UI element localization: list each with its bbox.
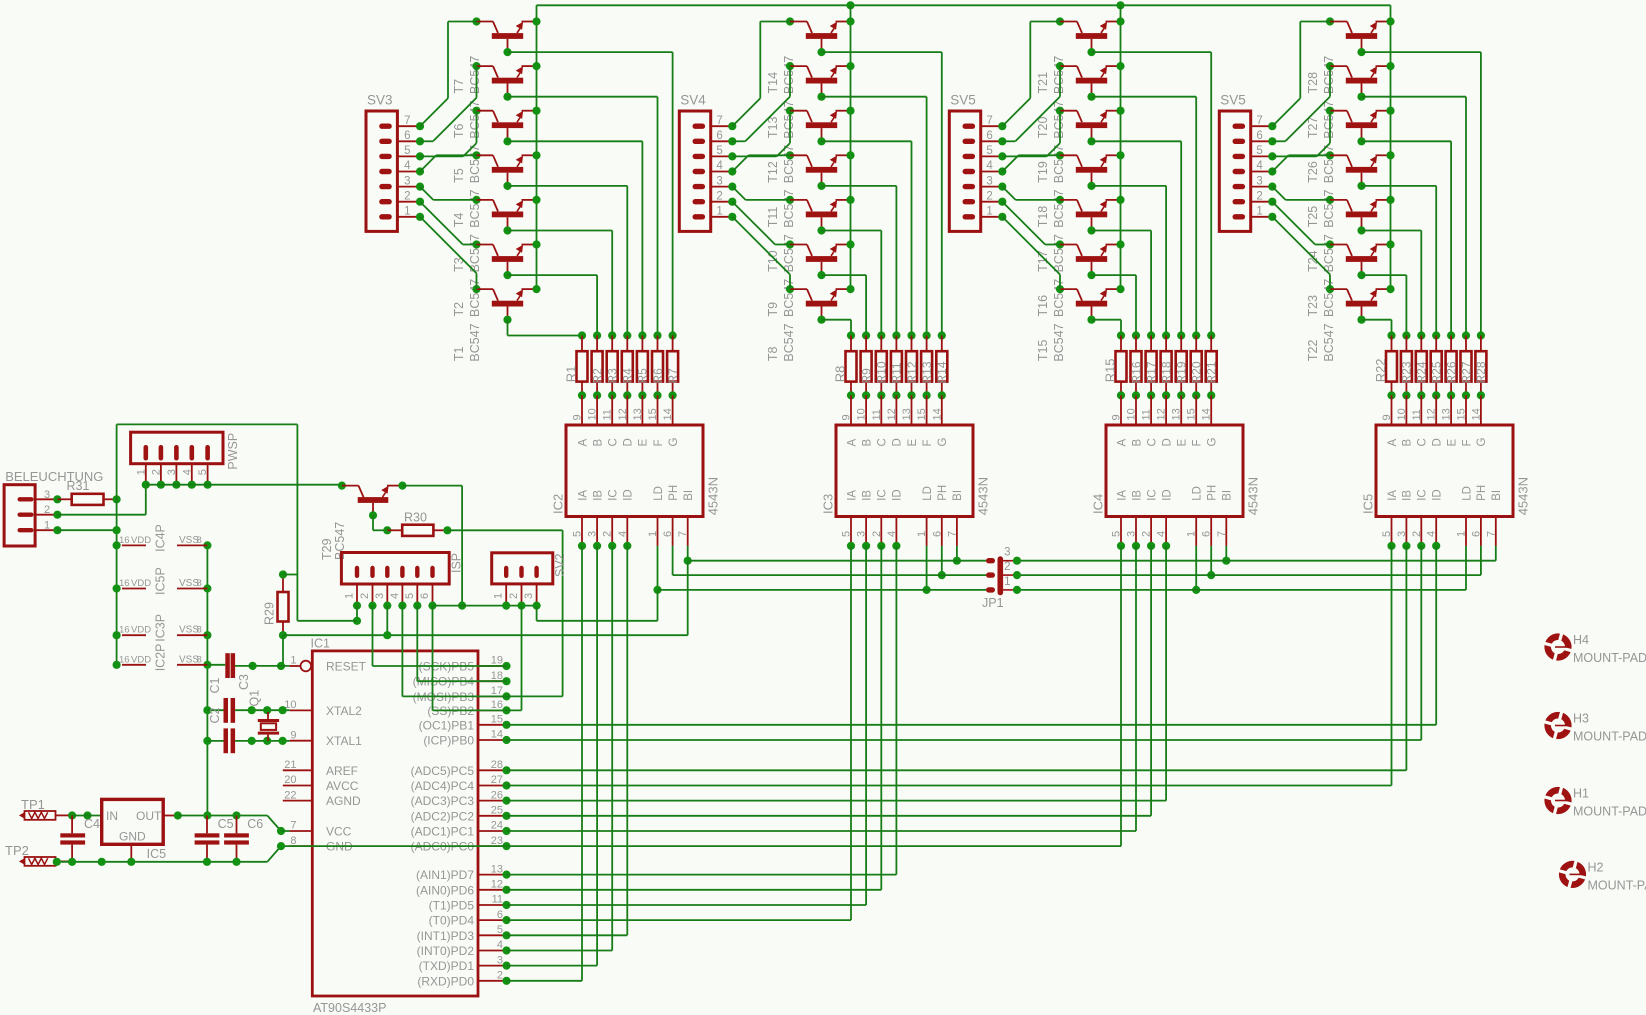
svg-text:6: 6 [986,130,992,142]
svg-text:ID: ID [892,489,904,501]
svg-text:BC547: BC547 [1322,323,1336,361]
svg-text:R19: R19 [1175,361,1189,383]
svg-text:2: 2 [359,593,371,599]
svg-text:27: 27 [491,774,503,786]
svg-text:SV5: SV5 [1220,93,1246,108]
svg-text:XTAL2: XTAL2 [326,704,362,718]
svg-text:H4: H4 [1573,633,1589,647]
svg-text:3: 3 [1256,175,1262,187]
svg-text:2: 2 [1004,561,1010,573]
svg-text:3: 3 [166,469,178,475]
svg-text:MOUNT-PAD: MOUNT-PAD [1573,730,1646,744]
svg-text:IN: IN [106,809,118,823]
svg-text:BI: BI [952,490,964,501]
svg-text:4: 4 [389,593,401,599]
svg-text:BC547: BC547 [468,100,482,138]
svg-text:R1: R1 [564,366,579,383]
svg-text:SV5: SV5 [950,93,976,108]
svg-text:16: 16 [119,578,130,589]
svg-text:9: 9 [841,414,853,420]
svg-text:R14: R14 [935,361,949,383]
svg-text:21: 21 [284,759,296,771]
svg-text:IB: IB [861,490,873,501]
svg-text:R12: R12 [905,361,919,383]
svg-text:IC5P: IC5P [154,567,168,595]
svg-text:(OC1)PB1: (OC1)PB1 [419,718,475,732]
svg-text:4: 4 [1256,160,1263,172]
svg-text:SV4: SV4 [680,93,706,108]
svg-text:3: 3 [523,593,535,599]
svg-text:9: 9 [1381,414,1393,420]
svg-text:R17: R17 [1144,361,1158,383]
svg-text:3: 3 [404,175,410,187]
svg-text:BC547: BC547 [782,279,796,317]
svg-text:F: F [653,439,665,446]
svg-text:11: 11 [492,894,503,906]
svg-text:R8: R8 [833,366,848,383]
svg-text:1: 1 [404,206,410,218]
svg-text:G: G [1476,438,1488,447]
svg-text:T18: T18 [1036,206,1050,228]
svg-text:TP2: TP2 [5,843,29,858]
svg-text:4543N: 4543N [705,477,720,515]
svg-text:13: 13 [491,863,503,875]
svg-text:(INT0)PD2: (INT0)PD2 [417,944,475,958]
svg-text:BC547: BC547 [468,323,482,361]
svg-text:5: 5 [197,469,209,475]
svg-text:6: 6 [1256,130,1262,142]
svg-text:VDD: VDD [131,578,151,589]
svg-text:IC: IC [608,489,620,501]
svg-text:AGND: AGND [326,794,361,808]
svg-text:C: C [608,438,620,446]
svg-text:1: 1 [344,593,356,599]
svg-text:16: 16 [491,699,503,711]
svg-text:T11: T11 [766,207,780,228]
svg-text:T19: T19 [1036,161,1050,183]
svg-text:BC547: BC547 [1052,234,1066,272]
svg-text:BC547: BC547 [782,145,796,183]
svg-text:4: 4 [716,160,723,172]
svg-text:ISP: ISP [450,553,464,573]
svg-text:2: 2 [1141,531,1153,537]
svg-text:4: 4 [1156,531,1168,537]
svg-text:Q1: Q1 [248,690,262,707]
svg-text:2: 2 [150,469,162,475]
svg-text:16: 16 [119,535,130,546]
svg-text:R26: R26 [1444,361,1458,383]
svg-text:IC4P: IC4P [154,524,168,552]
svg-text:14: 14 [662,408,674,420]
svg-text:4: 4 [181,469,193,475]
svg-text:7: 7 [946,531,958,537]
svg-text:BC547: BC547 [1322,145,1336,183]
svg-text:2: 2 [508,593,520,599]
svg-text:6: 6 [419,593,431,599]
svg-text:B: B [861,439,873,447]
svg-text:R15: R15 [1103,358,1118,382]
svg-text:RESET: RESET [326,660,367,674]
svg-text:IC1: IC1 [311,637,331,651]
svg-text:(ADC2)PC2: (ADC2)PC2 [411,809,475,823]
svg-text:A: A [1116,439,1128,447]
svg-text:IA: IA [1116,490,1128,501]
svg-text:11: 11 [602,409,614,420]
svg-text:6: 6 [716,130,722,142]
svg-text:MOUNT-PAD: MOUNT-PAD [1573,651,1646,665]
svg-text:5: 5 [1111,531,1123,537]
svg-text:B: B [592,439,604,447]
svg-text:LD: LD [653,486,665,501]
svg-text:11: 11 [1411,409,1423,420]
svg-text:R9: R9 [859,368,873,384]
svg-text:6: 6 [497,909,503,921]
svg-text:1: 1 [1004,576,1010,588]
svg-text:8: 8 [197,625,202,636]
svg-text:E: E [1446,439,1458,447]
svg-text:25: 25 [491,805,503,817]
svg-text:T9: T9 [766,302,780,317]
svg-text:15: 15 [1456,408,1468,420]
svg-text:26: 26 [491,789,503,801]
svg-text:14: 14 [491,729,503,741]
svg-text:T21: T21 [1036,72,1050,94]
svg-text:ID: ID [623,489,635,501]
svg-text:2: 2 [986,190,992,202]
svg-text:8: 8 [290,835,296,847]
svg-text:JP1: JP1 [982,596,1004,610]
svg-text:5: 5 [497,924,503,936]
svg-text:A: A [577,439,589,447]
svg-text:LD: LD [922,486,934,501]
svg-text:9: 9 [290,729,296,741]
svg-text:IC: IC [1146,489,1158,501]
svg-text:BC547: BC547 [782,234,796,272]
svg-text:VDD: VDD [131,535,151,546]
svg-text:MOUNT-PAD: MOUNT-PAD [1588,878,1646,892]
svg-text:BC547: BC547 [468,190,482,228]
svg-text:T25: T25 [1306,206,1320,228]
svg-text:T12: T12 [766,161,780,183]
svg-text:IC3P: IC3P [154,614,168,642]
svg-text:3: 3 [1396,531,1408,537]
svg-text:7: 7 [1256,115,1262,127]
svg-text:BI: BI [1222,490,1234,501]
svg-text:XTAL1: XTAL1 [326,734,362,748]
svg-text:R25: R25 [1430,361,1444,383]
svg-text:PH: PH [1476,485,1488,501]
svg-text:3: 3 [1004,547,1010,559]
svg-text:R18: R18 [1159,361,1173,383]
svg-text:T4: T4 [452,213,466,228]
svg-text:D: D [623,438,635,446]
svg-text:1: 1 [1186,531,1198,537]
svg-text:H2: H2 [1588,860,1604,874]
svg-text:1: 1 [135,469,147,475]
svg-text:R4: R4 [621,368,635,384]
svg-text:4: 4 [617,531,629,537]
svg-text:PH: PH [1207,485,1219,501]
svg-text:T8: T8 [766,346,780,361]
svg-text:12: 12 [617,408,629,420]
svg-text:T28: T28 [1306,72,1320,94]
svg-text:1: 1 [493,593,505,599]
svg-text:R13: R13 [920,361,934,383]
svg-text:2: 2 [44,504,50,516]
svg-text:2: 2 [404,190,410,202]
svg-text:14: 14 [931,408,943,420]
svg-text:(T0)PD4: (T0)PD4 [429,914,475,928]
svg-text:20: 20 [284,774,296,786]
svg-text:F: F [1461,439,1473,446]
svg-text:8: 8 [197,578,202,589]
svg-text:C3: C3 [237,674,251,690]
svg-text:5: 5 [716,145,722,157]
svg-text:C5: C5 [218,817,234,831]
svg-text:IA: IA [846,490,858,501]
svg-text:BC547: BC547 [468,56,482,94]
svg-text:AT90S4433P: AT90S4433P [313,1001,386,1015]
svg-text:(ADC4)PC4: (ADC4)PC4 [411,779,475,793]
svg-text:22: 22 [284,789,296,801]
svg-text:BC547: BC547 [468,279,482,317]
svg-text:12: 12 [1156,408,1168,420]
svg-text:10: 10 [1126,408,1138,420]
svg-text:AVCC: AVCC [326,779,359,793]
svg-text:6: 6 [931,531,943,537]
svg-text:TP1: TP1 [21,797,45,812]
svg-text:6: 6 [404,130,410,142]
svg-text:BC547: BC547 [1052,145,1066,183]
svg-text:(INT1)PD3: (INT1)PD3 [417,929,475,943]
svg-text:IC2P: IC2P [154,644,168,672]
svg-text:3: 3 [716,175,722,187]
svg-text:R20: R20 [1190,361,1204,383]
svg-text:17: 17 [491,685,503,697]
svg-text:SV2: SV2 [553,553,567,577]
svg-text:5: 5 [404,593,416,599]
svg-text:R28: R28 [1474,361,1488,383]
svg-text:13: 13 [1171,408,1183,420]
svg-text:BC547: BC547 [782,190,796,228]
svg-text:6: 6 [1470,531,1482,537]
svg-text:13: 13 [901,408,913,420]
svg-text:R23: R23 [1400,361,1414,383]
svg-text:2: 2 [1256,190,1262,202]
svg-text:D: D [892,438,904,446]
svg-text:4543N: 4543N [1245,477,1260,515]
svg-text:4543N: 4543N [1515,477,1530,515]
svg-text:(T1)PD5: (T1)PD5 [429,899,475,913]
svg-text:C6: C6 [247,817,263,831]
svg-text:BC547: BC547 [1052,323,1066,361]
svg-text:G: G [668,438,680,447]
svg-text:GND: GND [119,830,146,844]
svg-text:R29: R29 [262,602,276,625]
svg-text:C: C [1146,438,1158,446]
svg-text:1: 1 [986,206,992,218]
svg-text:2: 2 [1411,531,1423,537]
svg-text:IC4: IC4 [1090,494,1105,514]
svg-text:G: G [937,438,949,447]
svg-text:R3: R3 [606,368,620,384]
svg-text:D: D [1432,438,1444,446]
svg-text:1: 1 [716,206,722,218]
svg-text:E: E [907,439,919,447]
svg-text:BI: BI [683,490,695,501]
svg-text:4543N: 4543N [975,477,990,515]
svg-text:(ICP)PB0: (ICP)PB0 [423,734,474,748]
svg-text:5: 5 [572,531,584,537]
svg-text:T7: T7 [452,79,466,94]
svg-text:4: 4 [497,939,503,951]
svg-text:3: 3 [856,531,868,537]
svg-text:1: 1 [1456,531,1468,537]
svg-text:8: 8 [197,654,202,665]
svg-text:10: 10 [587,408,599,420]
svg-text:IC: IC [877,489,889,501]
svg-text:BI: BI [1491,490,1503,501]
svg-text:23: 23 [491,835,503,847]
svg-text:7: 7 [677,531,689,537]
svg-text:SV3: SV3 [367,93,393,108]
svg-text:14: 14 [1201,408,1213,420]
svg-text:7: 7 [986,115,992,127]
svg-text:IC2: IC2 [550,494,565,514]
svg-text:ID: ID [1161,489,1173,501]
svg-text:R6: R6 [651,368,665,384]
svg-text:IC5: IC5 [147,847,167,861]
svg-text:15: 15 [491,714,503,726]
svg-text:7: 7 [290,820,296,832]
svg-text:BC547: BC547 [782,323,796,361]
svg-text:BC547: BC547 [782,56,796,94]
svg-text:R30: R30 [404,511,427,525]
svg-text:(AIN1)PD7: (AIN1)PD7 [416,868,474,882]
svg-text:BC547: BC547 [1322,234,1336,272]
svg-text:C1: C1 [208,677,222,693]
svg-text:1: 1 [44,520,50,532]
svg-text:9: 9 [572,414,584,420]
svg-text:ID: ID [1432,489,1444,501]
svg-text:BC547: BC547 [1322,190,1336,228]
svg-text:R7: R7 [666,368,680,384]
svg-text:PH: PH [937,485,949,501]
svg-text:AREF: AREF [326,764,358,778]
svg-text:10: 10 [1396,408,1408,420]
svg-text:4: 4 [1426,531,1438,537]
svg-text:R24: R24 [1415,361,1429,383]
svg-text:T26: T26 [1306,161,1320,183]
svg-text:24: 24 [491,820,503,832]
svg-text:11: 11 [871,409,883,420]
svg-text:IA: IA [577,490,589,501]
svg-text:2: 2 [716,190,722,202]
svg-text:MOUNT-PAD: MOUNT-PAD [1573,805,1646,819]
svg-text:T22: T22 [1306,340,1320,362]
svg-text:E: E [1177,439,1189,447]
svg-text:BC547: BC547 [1052,279,1066,317]
svg-text:12: 12 [491,879,503,891]
svg-text:PWSP: PWSP [226,433,240,470]
svg-text:7: 7 [716,115,722,127]
svg-text:IB: IB [1131,490,1143,501]
svg-text:19: 19 [491,655,503,667]
svg-text:(RXD)PD0: (RXD)PD0 [417,974,474,988]
svg-text:IB: IB [1402,490,1414,501]
svg-text:T5: T5 [452,168,466,183]
svg-text:F: F [1192,439,1204,446]
svg-text:(AIN0)PD6: (AIN0)PD6 [416,883,474,897]
svg-text:8: 8 [197,535,202,546]
svg-text:T2: T2 [452,302,466,317]
svg-text:IC5: IC5 [1360,494,1375,514]
svg-text:1: 1 [916,531,928,537]
svg-text:IC: IC [1417,489,1429,501]
svg-text:15: 15 [647,408,659,420]
svg-text:3: 3 [587,531,599,537]
svg-text:PH: PH [668,485,680,501]
svg-text:3: 3 [986,175,992,187]
svg-text:7: 7 [1216,531,1228,537]
svg-text:R2: R2 [590,368,604,384]
svg-text:12: 12 [886,408,898,420]
svg-text:H1: H1 [1573,787,1589,801]
svg-text:13: 13 [1441,408,1453,420]
svg-text:F: F [922,439,934,446]
svg-text:T16: T16 [1036,295,1050,317]
svg-text:9: 9 [1111,414,1123,420]
svg-text:R22: R22 [1373,358,1388,382]
svg-text:R16: R16 [1129,361,1143,383]
svg-text:5: 5 [1381,531,1393,537]
svg-text:LD: LD [1461,486,1473,501]
svg-text:LD: LD [1192,486,1204,501]
svg-text:3: 3 [497,954,503,966]
svg-text:C4: C4 [84,817,100,831]
svg-text:(ADC5)PC5: (ADC5)PC5 [411,764,475,778]
svg-text:4: 4 [886,531,898,537]
svg-text:VDD: VDD [131,625,151,636]
svg-text:(TXD)PD1: (TXD)PD1 [419,959,475,973]
svg-text:D: D [1161,438,1173,446]
svg-text:C: C [877,438,889,446]
svg-text:VDD: VDD [131,654,151,665]
svg-text:C: C [1417,438,1429,446]
svg-text:1: 1 [1256,206,1262,218]
svg-text:5: 5 [841,531,853,537]
svg-text:IB: IB [592,490,604,501]
svg-text:13: 13 [632,408,644,420]
svg-text:1: 1 [647,531,659,537]
svg-text:T1: T1 [452,346,466,361]
svg-text:BC547: BC547 [1052,100,1066,138]
svg-text:BC547: BC547 [1322,279,1336,317]
svg-text:G: G [1207,438,1219,447]
svg-text:18: 18 [491,670,503,682]
svg-text:1: 1 [290,655,296,667]
svg-text:B: B [1402,439,1414,447]
svg-text:T15: T15 [1036,340,1050,362]
svg-text:A: A [1387,439,1399,447]
svg-text:A: A [846,439,858,447]
svg-text:BC547: BC547 [1322,100,1336,138]
svg-text:28: 28 [491,759,503,771]
svg-text:T23: T23 [1306,295,1320,317]
svg-text:IC3: IC3 [820,494,835,514]
svg-text:5: 5 [986,145,992,157]
svg-text:OUT: OUT [136,809,162,823]
